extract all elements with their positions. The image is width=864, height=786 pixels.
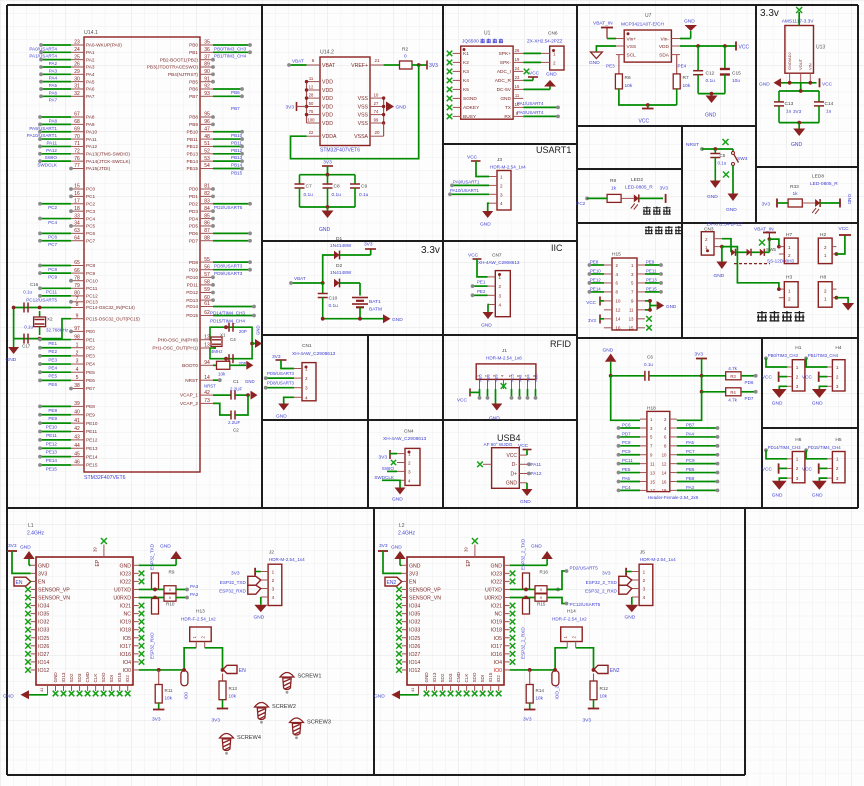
svg-text:NC: NC bbox=[124, 612, 132, 618]
svg-text:10k: 10k bbox=[165, 696, 173, 701]
wire CN3.2 to switch bbox=[722, 239, 731, 253]
pin 98 (PE1) bbox=[71, 334, 95, 342]
wire bbox=[779, 122, 819, 124]
svg-text:GND: GND bbox=[714, 273, 725, 279]
svg-text:41: 41 bbox=[410, 687, 415, 692]
svg-text:SCREW4: SCREW4 bbox=[237, 735, 261, 741]
pin L2 IO21 bbox=[491, 604, 510, 610]
junction bbox=[382, 105, 385, 108]
pin L2 bottom SD2 bbox=[440, 673, 445, 691]
power flag VCC bbox=[736, 42, 749, 51]
connector CN3 bbox=[701, 222, 742, 256]
capacitor C8 bbox=[323, 175, 342, 207]
svg-text:PC8: PC8 bbox=[622, 440, 631, 445]
svg-text:IO4: IO4 bbox=[123, 660, 131, 666]
ground bbox=[322, 211, 334, 219]
wire bbox=[800, 83, 802, 91]
svg-text:VSS: VSS bbox=[358, 113, 369, 119]
svg-text:PE1: PE1 bbox=[86, 337, 95, 342]
pin 44 (PE13) bbox=[71, 443, 98, 451]
svg-text:GND: GND bbox=[276, 414, 287, 420]
pin L1 bottom IO13 bbox=[61, 672, 66, 691]
svg-text:VIN: VIN bbox=[808, 63, 813, 70]
wire SWIO bbox=[387, 470, 397, 472]
wire NRST bbox=[702, 148, 733, 150]
power flag 3V3 bbox=[378, 543, 388, 551]
pin 68 (PA9) bbox=[71, 119, 95, 127]
pin L1 bottom CMD bbox=[85, 671, 90, 691]
pin 1 (PE2) bbox=[71, 342, 95, 350]
connector H13 bbox=[181, 609, 216, 642]
junction bbox=[552, 49, 555, 52]
svg-text:3: 3 bbox=[408, 469, 411, 474]
svg-text:H13: H13 bbox=[196, 609, 205, 615]
svg-text:GND: GND bbox=[847, 194, 852, 205]
pin L2 bottom CLK bbox=[464, 673, 469, 691]
pin U1 ADC_I bbox=[497, 66, 523, 75]
svg-text:25: 25 bbox=[74, 54, 80, 60]
pins H15 row 5 bbox=[604, 299, 645, 304]
svg-text:PA0/USART4: PA0/USART4 bbox=[517, 110, 544, 115]
svg-text:PC9: PC9 bbox=[86, 271, 96, 276]
svg-text:ESP32_2_TXD: ESP32_2_TXD bbox=[586, 580, 618, 585]
svg-text:IO23: IO23 bbox=[120, 571, 131, 577]
svg-text:IO26: IO26 bbox=[38, 644, 49, 650]
power flag 3V3 bbox=[7, 543, 17, 551]
svg-text:K2: K2 bbox=[463, 60, 469, 66]
svg-text:PA6: PA6 bbox=[622, 476, 631, 481]
svg-text:PE10: PE10 bbox=[86, 421, 98, 426]
svg-text:SWIO: SWIO bbox=[382, 466, 395, 471]
svg-text:63: 63 bbox=[74, 228, 80, 234]
wire J2 gnd bbox=[260, 597, 262, 605]
pin L1 IO4 bbox=[123, 660, 139, 666]
pin 11 (VDD) bbox=[307, 76, 334, 86]
wire bbox=[511, 389, 513, 398]
svg-text:H8: H8 bbox=[820, 275, 826, 281]
svg-text:3.3v: 3.3v bbox=[421, 245, 440, 256]
wire bbox=[213, 394, 231, 396]
junction bbox=[648, 299, 652, 303]
svg-text:3V3: 3V3 bbox=[695, 352, 704, 358]
ground flag up bbox=[391, 545, 406, 566]
LED LED8 bbox=[812, 199, 820, 214]
svg-text:Vin+: Vin+ bbox=[627, 36, 637, 42]
svg-text:STM32F407VET6: STM32F407VET6 bbox=[320, 148, 360, 154]
capacitor C7 bbox=[295, 175, 314, 207]
pin L2 U0TXD bbox=[485, 587, 510, 593]
svg-text:PC11: PC11 bbox=[622, 458, 633, 463]
svg-text:IO22: IO22 bbox=[120, 579, 131, 585]
pin 10 (VSS) bbox=[358, 92, 384, 102]
wire net PA4 bbox=[41, 73, 71, 75]
svg-text:C6: C6 bbox=[647, 355, 653, 360]
svg-text:PB10: PB10 bbox=[231, 133, 243, 138]
wire VSS gnd bbox=[596, 46, 616, 52]
svg-text:CN7: CN7 bbox=[492, 253, 502, 259]
pin 99 (VSS) bbox=[358, 117, 384, 127]
power flag VCC bbox=[762, 372, 779, 382]
pin L2 IO23 bbox=[491, 571, 510, 577]
no-connect X bbox=[472, 538, 478, 544]
svg-text:36: 36 bbox=[204, 47, 210, 53]
svg-text:D-: D- bbox=[512, 462, 518, 468]
pin U1 K3 bbox=[453, 69, 469, 75]
svg-text:3V3: 3V3 bbox=[762, 202, 771, 208]
wire net PA6 bbox=[41, 88, 71, 90]
svg-text:72: 72 bbox=[74, 149, 80, 155]
no-connect X bbox=[396, 587, 402, 593]
svg-text:GND: GND bbox=[812, 492, 823, 498]
wire net PE5 bbox=[40, 371, 71, 373]
junction bbox=[553, 668, 557, 672]
svg-text:PE3: PE3 bbox=[606, 64, 615, 69]
pin L1 bottom IO15 bbox=[117, 672, 122, 691]
capacitor C17 bbox=[22, 324, 33, 348]
pin L1 bottom GND bbox=[53, 672, 58, 691]
svg-text:SS-12D00H3: SS-12D00H3 bbox=[767, 259, 795, 264]
svg-text:R15: R15 bbox=[537, 602, 546, 607]
no-connect X bbox=[496, 691, 502, 697]
svg-text:PD13: PD13 bbox=[186, 298, 198, 303]
junction bbox=[153, 596, 157, 600]
pin 55 (PD8) bbox=[189, 257, 213, 265]
ground flag up bbox=[684, 19, 697, 39]
pin 92 (PB6) bbox=[189, 84, 213, 92]
pin U7 Vin+ bbox=[616, 36, 636, 42]
svg-text:PB0/TIM3_CH3: PB0/TIM3_CH3 bbox=[214, 46, 247, 51]
pin L2 IO22 bbox=[491, 579, 510, 585]
svg-text:PA5: PA5 bbox=[686, 440, 695, 445]
svg-text:VOUT: VOUT bbox=[798, 58, 803, 70]
svg-text:IO4: IO4 bbox=[494, 660, 502, 666]
svg-text:IO25: IO25 bbox=[409, 636, 420, 642]
wire net PE9 bbox=[40, 414, 71, 416]
pin 13 (PH1-OSC_OUT) bbox=[152, 343, 213, 351]
wire bbox=[340, 254, 371, 256]
svg-text:MCP3421A0T-E/CH: MCP3421A0T-E/CH bbox=[621, 22, 664, 28]
pin L2 IO33 bbox=[402, 628, 421, 634]
pin L2 bottom GND bbox=[424, 672, 429, 691]
resistor R9 bbox=[152, 570, 175, 590]
svg-text:EP: EP bbox=[95, 559, 101, 566]
wire PC14 to X2 bbox=[40, 307, 71, 309]
svg-text:12: 12 bbox=[309, 84, 314, 89]
svg-text:3: 3 bbox=[76, 359, 79, 365]
svg-text:VDDA: VDDA bbox=[322, 134, 337, 140]
svg-text:LED-0805_R: LED-0805_R bbox=[810, 181, 838, 187]
svg-text:PA9/USART1: PA9/USART1 bbox=[453, 179, 480, 184]
wire bbox=[741, 375, 756, 377]
svg-text:2: 2 bbox=[788, 297, 791, 302]
junction bbox=[305, 80, 308, 83]
ground bbox=[657, 301, 665, 310]
svg-text:VCC: VCC bbox=[529, 71, 540, 77]
svg-text:0.1u: 0.1u bbox=[359, 192, 369, 198]
svg-text:RX: RX bbox=[504, 114, 511, 120]
svg-text:EP: EP bbox=[466, 559, 472, 566]
svg-text:PE3: PE3 bbox=[48, 357, 57, 362]
pin L1 IO25 bbox=[31, 636, 50, 642]
svg-text:13: 13 bbox=[204, 343, 210, 349]
net port EN2 bbox=[385, 577, 402, 586]
ground bbox=[522, 489, 533, 496]
svg-text:J5: J5 bbox=[640, 550, 645, 556]
svg-text:VBAT: VBAT bbox=[294, 276, 306, 281]
pin L2 bottom IO15 bbox=[488, 672, 493, 691]
svg-text:LED8: LED8 bbox=[812, 174, 824, 180]
svg-text:1: 1 bbox=[796, 457, 799, 462]
svg-text:EN: EN bbox=[16, 580, 23, 586]
pin 30 (PA5) bbox=[71, 76, 95, 84]
ground bbox=[793, 129, 805, 137]
no-connect X bbox=[25, 659, 31, 665]
svg-text:PD6: PD6 bbox=[745, 380, 754, 385]
pin 12 (PH0-OSC_IN) bbox=[158, 334, 213, 342]
svg-text:3V3: 3V3 bbox=[272, 354, 281, 360]
svg-text:SD2: SD2 bbox=[440, 673, 445, 682]
no-connect X bbox=[61, 691, 67, 697]
pin 51 (PB12) bbox=[187, 141, 213, 149]
wire bbox=[327, 207, 329, 211]
pin 56 (PD9) bbox=[189, 264, 213, 272]
svg-text:GND: GND bbox=[254, 615, 265, 621]
svg-text:SPK+: SPK+ bbox=[499, 51, 512, 57]
wire IO0 bbox=[510, 669, 555, 671]
wire out2 bbox=[176, 597, 187, 599]
svg-text:PA7: PA7 bbox=[86, 94, 95, 99]
pin L1 IO16 bbox=[120, 652, 139, 658]
svg-text:97: 97 bbox=[74, 326, 80, 332]
svg-text:PA3: PA3 bbox=[190, 584, 199, 589]
svg-text:15: 15 bbox=[629, 326, 634, 331]
pin 5 (PE6) bbox=[71, 375, 95, 383]
junction bbox=[305, 113, 308, 116]
no-connect X bbox=[25, 595, 31, 601]
pin 41 (PE10) bbox=[71, 418, 98, 426]
wire out1 bbox=[547, 588, 558, 590]
svg-text:PB14: PB14 bbox=[231, 163, 243, 168]
svg-text:PE4: PE4 bbox=[86, 362, 95, 367]
power flag VCC bbox=[518, 443, 532, 450]
svg-text:VCC: VCC bbox=[762, 375, 773, 381]
svg-text:XH-4AW_C2908613: XH-4AW_C2908613 bbox=[292, 351, 336, 357]
svg-text:1u: 1u bbox=[826, 108, 832, 114]
wire net PD8/USART3 bbox=[213, 261, 250, 263]
pin 1 CN1 bbox=[294, 367, 308, 372]
wire net PA1/USART4 bbox=[41, 51, 71, 53]
junction bbox=[326, 205, 330, 209]
svg-text:2.2UF: 2.2UF bbox=[230, 386, 243, 391]
resistor R11 bbox=[155, 670, 173, 703]
svg-text:GND: GND bbox=[759, 82, 770, 88]
svg-text:74: 74 bbox=[374, 109, 379, 114]
no-connect X bbox=[109, 691, 115, 697]
svg-text:VCC: VCC bbox=[762, 466, 773, 472]
pin 7 J1 bbox=[524, 374, 529, 389]
pin L1 IO22 bbox=[120, 579, 139, 585]
power flag VCC bbox=[820, 78, 833, 87]
svg-text:PC5: PC5 bbox=[511, 374, 515, 381]
svg-text:2: 2 bbox=[499, 284, 502, 289]
svg-text:75: 75 bbox=[309, 109, 314, 114]
IC U14.2 STM32F407VET6 power bbox=[320, 50, 370, 154]
svg-text:PC15-OSC32_OUT(PC15): PC15-OSC32_OUT(PC15) bbox=[86, 316, 140, 321]
pin 12 (VDD) bbox=[307, 84, 334, 94]
svg-text:PC7: PC7 bbox=[48, 242, 57, 247]
power flag 3V3 bbox=[285, 102, 306, 111]
pin 15 (PC0) bbox=[71, 184, 96, 192]
svg-text:0.1u: 0.1u bbox=[332, 192, 342, 198]
svg-text:PB7: PB7 bbox=[231, 106, 240, 111]
svg-text:ADKEY: ADKEY bbox=[463, 105, 480, 111]
resistor R12 bbox=[590, 674, 608, 700]
wire bbox=[359, 307, 361, 318]
svg-text:8: 8 bbox=[76, 302, 79, 308]
capacitor C9 bbox=[350, 175, 369, 207]
svg-text:CMD: CMD bbox=[456, 671, 461, 682]
svg-text:2: 2 bbox=[500, 183, 503, 188]
svg-text:PD8/USART3: PD8/USART3 bbox=[214, 264, 243, 269]
svg-text:NC: NC bbox=[495, 612, 503, 618]
svg-text:3: 3 bbox=[643, 587, 646, 592]
svg-text:R7: R7 bbox=[683, 75, 689, 81]
pin U1 SPK+ bbox=[499, 48, 524, 57]
svg-text:SCREW3: SCREW3 bbox=[307, 720, 331, 726]
svg-text:PB1: PB1 bbox=[189, 50, 198, 55]
junction bbox=[182, 668, 186, 672]
svg-text:35: 35 bbox=[204, 40, 210, 46]
svg-text:PA4: PA4 bbox=[86, 72, 95, 77]
svg-text:GND: GND bbox=[772, 492, 783, 498]
svg-text:93: 93 bbox=[204, 91, 210, 97]
pin L1 3V3 bbox=[31, 571, 48, 577]
svg-text:18: 18 bbox=[74, 206, 80, 212]
svg-text:GND: GND bbox=[119, 563, 131, 569]
svg-text:VCC: VCC bbox=[739, 45, 750, 51]
svg-text:PA15(JTDI): PA15(JTDI) bbox=[86, 166, 111, 171]
svg-text:PA13(JTMS-SWDIO): PA13(JTMS-SWDIO) bbox=[86, 152, 130, 157]
svg-text:PB10: PB10 bbox=[187, 129, 199, 134]
junction bbox=[224, 325, 228, 329]
svg-text:PC14-OSC32_IN(PC14): PC14-OSC32_IN(PC14) bbox=[86, 305, 135, 310]
net port ESP32_RXD bbox=[219, 585, 261, 594]
junction bbox=[777, 287, 781, 291]
power flag 3V3 bbox=[665, 194, 667, 203]
svg-text:3V3: 3V3 bbox=[364, 242, 373, 248]
power flag VCC bbox=[468, 253, 482, 260]
junction bbox=[713, 147, 717, 151]
wire U0TXD bbox=[510, 588, 535, 590]
svg-text:PA8: PA8 bbox=[49, 118, 58, 123]
wire gnd bbox=[779, 386, 787, 389]
wire J3.4 gnd bbox=[488, 203, 489, 211]
svg-text:3V3: 3V3 bbox=[583, 718, 592, 724]
svg-text:PA14(JTCK-SWCLK): PA14(JTCK-SWCLK) bbox=[86, 159, 131, 164]
wire CN4 gnd bbox=[397, 480, 400, 487]
wire net PE12 bbox=[40, 439, 71, 441]
svg-text:GND: GND bbox=[666, 304, 677, 309]
svg-text:PB15: PB15 bbox=[187, 166, 199, 171]
wire PC9 bbox=[677, 463, 718, 465]
svg-text:PC4: PC4 bbox=[48, 220, 57, 225]
pin L1 EN bbox=[31, 579, 46, 585]
svg-text:IO34: IO34 bbox=[38, 604, 49, 610]
svg-text:0.1u: 0.1u bbox=[329, 303, 339, 309]
svg-text:ESP32_RXD: ESP32_RXD bbox=[219, 589, 246, 594]
svg-text:H5: H5 bbox=[835, 437, 841, 443]
svg-text:PE5: PE5 bbox=[622, 467, 631, 472]
wire bbox=[702, 391, 726, 393]
svg-text:13: 13 bbox=[629, 317, 634, 322]
no-connect X bbox=[396, 627, 402, 633]
text (CJK) bbox=[643, 207, 671, 215]
svg-text:PB9: PB9 bbox=[189, 122, 198, 127]
svg-text:PC13: PC13 bbox=[86, 300, 98, 305]
pin 3 (PE4) bbox=[71, 359, 95, 367]
svg-text:32: 32 bbox=[74, 91, 80, 97]
power flag VBAT_IN bbox=[593, 21, 613, 39]
svg-text:24: 24 bbox=[74, 47, 80, 53]
svg-text:PB11: PB11 bbox=[231, 140, 242, 145]
pin U1 K2 bbox=[453, 60, 469, 66]
wire top bbox=[798, 12, 800, 26]
svg-text:PD15/TIM4_CH4: PD15/TIM4_CH4 bbox=[210, 319, 245, 324]
connector H2 bbox=[818, 232, 836, 264]
svg-text:SENSOR_VP: SENSOR_VP bbox=[38, 587, 70, 593]
pin 4 (PE5) bbox=[71, 367, 95, 375]
svg-text:SGND: SGND bbox=[463, 96, 477, 102]
wire net PB11 bbox=[213, 138, 242, 140]
svg-text:27: 27 bbox=[374, 101, 379, 106]
wire PA5 bbox=[677, 445, 718, 447]
wire bbox=[519, 389, 521, 398]
wire PE15 bbox=[645, 291, 661, 293]
no-connect X bbox=[396, 611, 402, 617]
svg-text:C12: C12 bbox=[706, 71, 715, 77]
svg-text:0.1u: 0.1u bbox=[304, 192, 314, 198]
wire PE8 bbox=[589, 264, 604, 266]
svg-text:76: 76 bbox=[74, 156, 80, 162]
no-connect X bbox=[477, 462, 483, 468]
svg-text:2: 2 bbox=[643, 578, 646, 583]
pin L2 IO4 bbox=[494, 660, 510, 666]
wire out1 bbox=[547, 571, 566, 589]
svg-text:U0TXD: U0TXD bbox=[114, 587, 131, 593]
svg-text:PE12: PE12 bbox=[46, 441, 58, 446]
connector H4 bbox=[827, 345, 845, 391]
pin 3 J3 bbox=[489, 192, 503, 197]
no-connect X bbox=[510, 571, 516, 577]
pin USB4 GND bbox=[506, 481, 527, 487]
junction bbox=[153, 588, 157, 592]
connector J1 bbox=[476, 348, 536, 379]
wire GND right bbox=[139, 564, 176, 566]
svg-text:32.768KHz: 32.768KHz bbox=[46, 328, 69, 333]
wire bbox=[736, 251, 747, 253]
connector H18 bbox=[647, 406, 699, 500]
resistor R10 bbox=[152, 599, 175, 615]
resistor R3 bbox=[726, 366, 741, 380]
svg-text:VSS: VSS bbox=[358, 96, 369, 102]
svg-text:71: 71 bbox=[74, 141, 80, 147]
svg-text:2: 2 bbox=[272, 578, 275, 583]
no-connect X bbox=[25, 635, 31, 641]
power flag VBAT_IN bbox=[754, 227, 776, 240]
pin U7 SDA bbox=[659, 52, 680, 58]
svg-text:PA5: PA5 bbox=[86, 79, 95, 84]
svg-text:GND: GND bbox=[707, 194, 718, 200]
